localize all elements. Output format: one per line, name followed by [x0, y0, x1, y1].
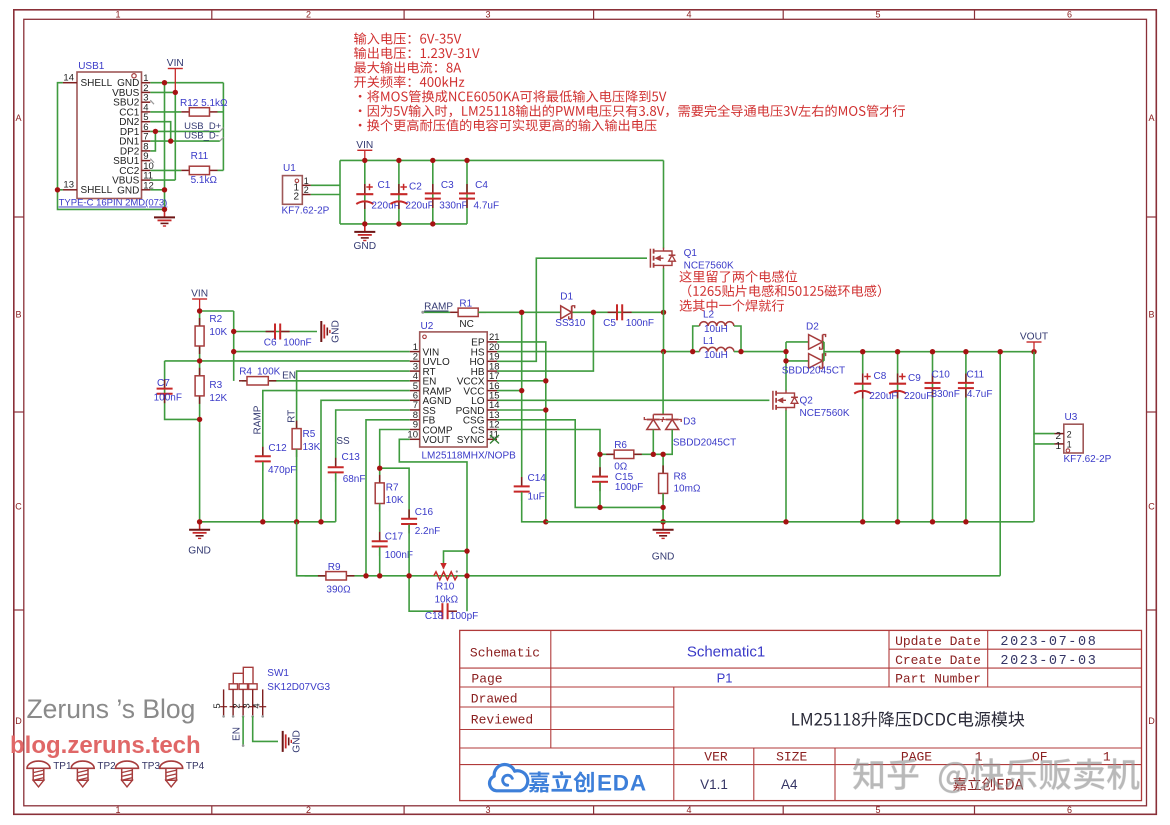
svg-text:10kΩ: 10kΩ [435, 595, 459, 606]
svg-text:R2: R2 [209, 314, 222, 325]
wire U3 pin2 feed [1034, 352, 1055, 434]
junction [930, 519, 935, 524]
wire USB VBUS pin2 [150, 91, 175, 93]
svg-text:10K: 10K [209, 327, 227, 338]
wire C10 vert [932, 352, 934, 522]
svg-text:D1: D1 [560, 292, 573, 303]
svg-text:C7: C7 [157, 378, 170, 389]
junction [661, 310, 666, 315]
grid column numbers bottom [115, 805, 1072, 815]
junction [197, 308, 202, 313]
wire ramp to R1 [424, 311, 450, 313]
wire SW1 gnd pin [253, 716, 278, 741]
red annotation input specs [354, 32, 461, 44]
wire VCC riser [497, 390, 522, 392]
connector U3 KF7.62-2P [1055, 412, 1112, 465]
svg-text:C11: C11 [967, 370, 985, 381]
junction [860, 519, 865, 524]
svg-text:C1: C1 [378, 180, 391, 191]
svg-text:L2: L2 [703, 310, 715, 321]
svg-text:NC: NC [459, 319, 473, 330]
svg-text:Page: Page [471, 672, 502, 687]
wire HS line [497, 351, 664, 353]
svg-text:Drawed: Drawed [471, 692, 518, 707]
capacitor C14 [514, 477, 530, 501]
svg-text:V1.1: V1.1 [700, 777, 728, 792]
wire DN2 [150, 122, 170, 141]
net flag VIN divider [191, 289, 208, 312]
label R12 [180, 98, 228, 109]
capacitor C5 [608, 304, 632, 320]
svg-text:C10: C10 [932, 370, 951, 381]
svg-text:R11: R11 [191, 151, 209, 162]
svg-text:A: A [1148, 113, 1154, 123]
svg-text:VER: VER [704, 750, 728, 765]
text blog.zeruns.tech [10, 732, 201, 759]
wire U1 pin1 to vin rail [311, 184, 340, 186]
svg-text:LO: LO [471, 396, 485, 407]
net flag VIN usb [167, 58, 184, 92]
label R9 [326, 562, 351, 596]
junction [597, 452, 602, 457]
svg-text:1: 1 [115, 805, 120, 815]
resistor R6 [606, 450, 642, 458]
svg-text:R8: R8 [674, 472, 687, 483]
svg-text:D: D [1148, 716, 1155, 726]
test point TP3 [116, 761, 139, 787]
wire HB riser [497, 312, 593, 371]
label R10 [435, 582, 459, 606]
junction [660, 519, 665, 524]
net label USB_D- [184, 131, 223, 142]
diode D3 SBDD2045CT [644, 352, 681, 430]
resistor R9 [318, 572, 355, 580]
junction [591, 310, 596, 315]
junction [162, 187, 167, 192]
svg-text:SBDD2045CT: SBDD2045CT [673, 438, 736, 449]
junction [231, 349, 236, 354]
svg-text:B: B [1148, 310, 1154, 320]
svg-text:R4: R4 [239, 367, 252, 378]
wire C3 vert [432, 160, 434, 224]
capacitor C3 [425, 184, 441, 208]
svg-text:Update Date: Update Date [895, 634, 981, 649]
junction [377, 466, 382, 471]
svg-text:VIN: VIN [167, 58, 184, 69]
label R7 [386, 483, 404, 507]
label TP2 [97, 761, 116, 772]
label C18 [425, 611, 478, 622]
capacitor C17 [372, 532, 388, 556]
svg-text:390Ω: 390Ω [326, 585, 351, 596]
wire DP1 / USB_D+ [150, 130, 220, 132]
capacitor C6 [266, 324, 290, 340]
svg-text:220uF: 220uF [904, 391, 932, 402]
label R8 [674, 472, 701, 495]
label C14 [528, 473, 547, 503]
grid row ticks right [1147, 217, 1157, 610]
svg-text:C4: C4 [475, 180, 488, 191]
wire pulldown vertical [222, 83, 224, 171]
wire D3 right anode [663, 430, 672, 455]
svg-text:B: B [15, 310, 21, 320]
svg-text:CSG: CSG [463, 416, 485, 427]
junction [660, 452, 665, 457]
svg-text:TP2: TP2 [97, 761, 116, 772]
svg-text:EN: EN [282, 371, 296, 382]
label C2 [405, 182, 433, 212]
potentiometer R10 [434, 551, 467, 580]
net label RAMP rotated [253, 405, 264, 434]
junction [464, 573, 469, 578]
junction [197, 417, 202, 422]
net flag VOUT [1020, 332, 1048, 352]
svg-text:220uF: 220uF [405, 201, 433, 212]
svg-text:TP4: TP4 [186, 761, 205, 772]
svg-text:330nF: 330nF [932, 389, 960, 400]
svg-text:2: 2 [293, 192, 299, 203]
ground input bank [353, 224, 376, 252]
inductor L2 branch [693, 326, 700, 352]
diode D2 upper [786, 335, 826, 350]
wire VCCX link [497, 380, 546, 382]
wire input gnd rail [340, 223, 467, 225]
svg-text:SBDD2045CT: SBDD2045CT [782, 366, 845, 377]
svg-text:4: 4 [686, 10, 691, 20]
svg-text:A: A [15, 113, 21, 123]
svg-text:D: D [15, 716, 22, 726]
wire branch vertical x233 [233, 311, 235, 381]
title block labels [470, 634, 1111, 765]
svg-text:C: C [15, 502, 22, 512]
wire UVLO line [165, 360, 410, 362]
svg-text:100nF: 100nF [626, 318, 654, 329]
wire C1 vert [364, 160, 366, 224]
capacitor C11 [958, 374, 974, 398]
junction [519, 388, 524, 393]
svg-text:R9: R9 [328, 562, 341, 573]
capacitor C15 [592, 454, 608, 507]
svg-text:0Ω: 0Ω [614, 462, 628, 473]
svg-text:14: 14 [63, 73, 74, 84]
svg-text:2.2nF: 2.2nF [415, 526, 441, 537]
svg-text:VOUT: VOUT [423, 435, 451, 446]
label R6 [614, 440, 628, 473]
svg-text:10uH: 10uH [704, 350, 728, 361]
svg-text:C16: C16 [415, 507, 434, 518]
junction [998, 349, 1003, 354]
svg-text:100pF: 100pF [615, 482, 643, 493]
wire R11 right [218, 169, 224, 171]
wire RT line [297, 371, 410, 429]
wire left gnd drop [199, 419, 201, 521]
wire L2 right drop [734, 326, 741, 352]
wire COMP line [380, 430, 410, 483]
svg-text:1: 1 [1055, 441, 1061, 452]
svg-text:10: 10 [407, 430, 418, 441]
svg-text:R10: R10 [436, 582, 455, 593]
svg-text:68nF: 68nF [343, 474, 366, 485]
diode D2 lower [786, 354, 826, 369]
label C11 [967, 370, 993, 400]
wire C11 vert [965, 352, 967, 522]
wire C8 vert [862, 352, 864, 522]
svg-text:R12 5.1kΩ: R12 5.1kΩ [180, 98, 228, 109]
svg-text:EN: EN [232, 727, 243, 741]
svg-text:470pF: 470pF [268, 465, 296, 476]
wire C9 vert [897, 352, 899, 522]
wire C12 to gnd rail [262, 462, 264, 522]
svg-text:220uF: 220uF [869, 391, 897, 402]
ground C6 rotated [321, 320, 341, 343]
inductor L1 [693, 347, 734, 351]
wire Q1 source to HS [663, 268, 665, 351]
capacitor C9 [889, 373, 906, 398]
capacitor C10 [925, 374, 941, 398]
wire EP net [497, 342, 546, 522]
svg-text:10K: 10K [386, 495, 404, 506]
wire CS path [497, 430, 600, 455]
wire AGND line [321, 400, 410, 522]
svg-text:1: 1 [115, 10, 120, 20]
svg-text:D2: D2 [806, 322, 819, 333]
svg-text:C17: C17 [385, 532, 404, 543]
junction [660, 505, 665, 510]
grid column numbers top [115, 10, 1072, 20]
wire LO to Q2 gate [497, 399, 769, 401]
wire CC1 to R12 [150, 111, 181, 113]
resistor R2 [195, 318, 204, 354]
svg-text:EDA: EDA [597, 771, 647, 796]
wire R12 right to GND net [218, 111, 224, 113]
wire SS line [336, 410, 410, 466]
connector USB1 TYPE-C [59, 61, 168, 209]
wire USB pin12 GND [150, 189, 164, 191]
wire C14 to gnd rail [522, 492, 546, 522]
svg-text:TP1: TP1 [53, 761, 72, 772]
junction [963, 349, 968, 354]
wire VIN top rail [340, 159, 664, 161]
svg-text:USB1: USB1 [78, 61, 105, 72]
capacitor C2 [390, 184, 407, 209]
svg-text:KF7.62-2P: KF7.62-2P [1064, 454, 1112, 465]
label L1 [703, 336, 728, 361]
svg-text:SHELL: SHELL [81, 185, 113, 196]
wire FB line [366, 420, 410, 576]
svg-text:100nF: 100nF [283, 338, 311, 349]
wire VOUT rail [824, 351, 1034, 353]
svg-text:12: 12 [143, 180, 154, 191]
wire D2 cathode join [823, 342, 824, 361]
wire DN1 / USB_D- [150, 140, 220, 142]
ground R8 [652, 522, 675, 563]
junction [362, 158, 367, 163]
svg-text:5.1kΩ: 5.1kΩ [191, 175, 218, 186]
label D2 [782, 322, 845, 377]
inductor L2 [700, 322, 734, 326]
svg-text:10mΩ: 10mΩ [674, 484, 701, 495]
svg-text:GND: GND [353, 241, 376, 252]
wire Q2 drain [785, 342, 787, 391]
grid row letters right [1148, 113, 1155, 726]
grid column ticks bottom [212, 806, 975, 815]
junction [363, 573, 368, 578]
svg-text:13K: 13K [303, 442, 321, 453]
label C6 [264, 338, 312, 349]
wire C7 branch [165, 361, 200, 420]
wire fb to vout riser [999, 352, 1001, 576]
svg-text:blog.zeruns.tech: blog.zeruns.tech [10, 732, 201, 759]
svg-text:13: 13 [63, 180, 74, 191]
svg-text:VCCX: VCCX [457, 377, 485, 388]
wire C4 vert [466, 160, 468, 224]
grid column ticks top [212, 10, 975, 19]
svg-text:1uF: 1uF [528, 492, 545, 503]
wire bottom gnd rail [546, 521, 1034, 523]
capacitor C8 [854, 373, 871, 398]
wire C18 left link [409, 576, 433, 611]
wire R5 to gnd rail [296, 449, 298, 522]
svg-text:C5: C5 [603, 318, 616, 329]
label R11 [191, 151, 218, 186]
label C15 [615, 472, 643, 493]
test point TP4 [160, 761, 183, 787]
svg-text:NCE7560K: NCE7560K [684, 261, 734, 272]
svg-text:R7: R7 [386, 483, 399, 494]
svg-text:4: 4 [251, 703, 262, 708]
svg-text:Zeruns ’s Blog: Zeruns ’s Blog [27, 694, 196, 724]
svg-text:GND: GND [292, 730, 303, 753]
wire R4 EN line [242, 380, 410, 382]
label Q1 [684, 248, 734, 272]
wire C13 to gnd rail [335, 473, 337, 522]
wire HO to Q1 gate [497, 258, 647, 361]
svg-text:C8: C8 [874, 371, 887, 382]
svg-text:4: 4 [686, 805, 691, 815]
label SW1 [267, 668, 330, 693]
resistor R12 [181, 108, 217, 116]
IC U2 LM25118 [407, 321, 516, 462]
svg-text:Q2: Q2 [800, 396, 814, 407]
svg-text:C2: C2 [409, 182, 422, 193]
svg-text:4.7uF: 4.7uF [967, 389, 993, 400]
ground usb [154, 209, 175, 226]
label C7 [154, 378, 182, 404]
svg-text:Q1: Q1 [684, 248, 698, 259]
wire U3 pin1 gnd feed [1034, 434, 1055, 522]
transistor Q1 NCE7560K [650, 248, 675, 269]
svg-text:VIN: VIN [356, 140, 373, 151]
svg-text:RAMP: RAMP [253, 405, 264, 434]
svg-text:330nF: 330nF [439, 201, 467, 212]
junction [963, 519, 968, 524]
svg-text:R1: R1 [459, 299, 472, 310]
junction [543, 519, 548, 524]
svg-text:SW1: SW1 [267, 668, 289, 679]
junction [377, 573, 382, 578]
net flag VIN input [356, 140, 373, 161]
ground left rail [188, 522, 211, 557]
test point TP2 [71, 761, 94, 787]
junction [895, 349, 900, 354]
svg-text:D3: D3 [683, 417, 696, 428]
junction [895, 519, 900, 524]
junction [197, 358, 202, 363]
svg-text:C18: C18 [425, 611, 444, 622]
svg-text:6: 6 [1067, 805, 1072, 815]
net label EN rotated [232, 727, 243, 741]
wire divider vertical [199, 311, 201, 419]
switch SW1 SK12D07VG3 [212, 667, 266, 717]
junction [153, 129, 158, 134]
svg-text:3: 3 [485, 10, 490, 20]
wire USB GND pin1 [150, 82, 223, 84]
label R1 [459, 299, 473, 331]
svg-text:U3: U3 [1065, 412, 1078, 423]
resistor R1 [450, 308, 486, 316]
net label EN [282, 371, 296, 382]
wire VCC vertical [521, 312, 523, 486]
label C17 [385, 532, 413, 562]
label R5 [303, 429, 321, 453]
svg-text:HB: HB [471, 367, 485, 378]
test point TP1 [27, 761, 50, 787]
junction [597, 505, 602, 510]
svg-text:1: 1 [1067, 440, 1072, 450]
junction [55, 187, 60, 192]
svg-text:Schematic1: Schematic1 [687, 644, 765, 661]
svg-text:U2: U2 [421, 321, 434, 332]
svg-text:SS: SS [336, 436, 350, 447]
capacitor C18 [433, 603, 457, 619]
junction [543, 378, 548, 383]
junction [543, 407, 548, 412]
wire VIN line to IC [234, 351, 410, 353]
junction [860, 349, 865, 354]
capacitor C1 [356, 184, 373, 209]
junction [362, 221, 367, 226]
svg-text:12K: 12K [209, 393, 227, 404]
svg-text:NCE7560K: NCE7560K [800, 408, 850, 419]
label TP4 [186, 761, 205, 772]
capacitor C4 [459, 184, 475, 208]
svg-text:5: 5 [875, 10, 880, 20]
junction [464, 548, 469, 553]
wire VOUT pin path [399, 439, 467, 611]
svg-text:CS: CS [471, 425, 485, 436]
svg-text:GND: GND [330, 320, 341, 343]
svg-text:100pF: 100pF [450, 611, 478, 622]
wire C6 line [234, 331, 317, 333]
capacitor C13 [328, 458, 344, 482]
svg-text:4.7uF: 4.7uF [474, 201, 500, 212]
svg-text:U1: U1 [283, 163, 296, 174]
net label SS [336, 436, 350, 447]
label C10 [932, 370, 960, 400]
svg-text:LM25118MHX/NOPB: LM25118MHX/NOPB [422, 451, 517, 462]
wire D3 left anode [652, 430, 654, 455]
svg-text:PGND: PGND [456, 406, 485, 417]
wire vin branch right [200, 310, 234, 312]
svg-text:TYPE-C 16PIN 2MD(073): TYPE-C 16PIN 2MD(073) [59, 198, 168, 209]
label Q2 [800, 396, 850, 420]
svg-text:C14: C14 [528, 473, 547, 484]
net label RAMP flag [421, 301, 453, 314]
wire C2 vert [398, 160, 400, 224]
wire L1 right [734, 351, 786, 353]
wire R7 to C17 [379, 504, 381, 542]
wire shell pin13 stub link [58, 189, 63, 191]
